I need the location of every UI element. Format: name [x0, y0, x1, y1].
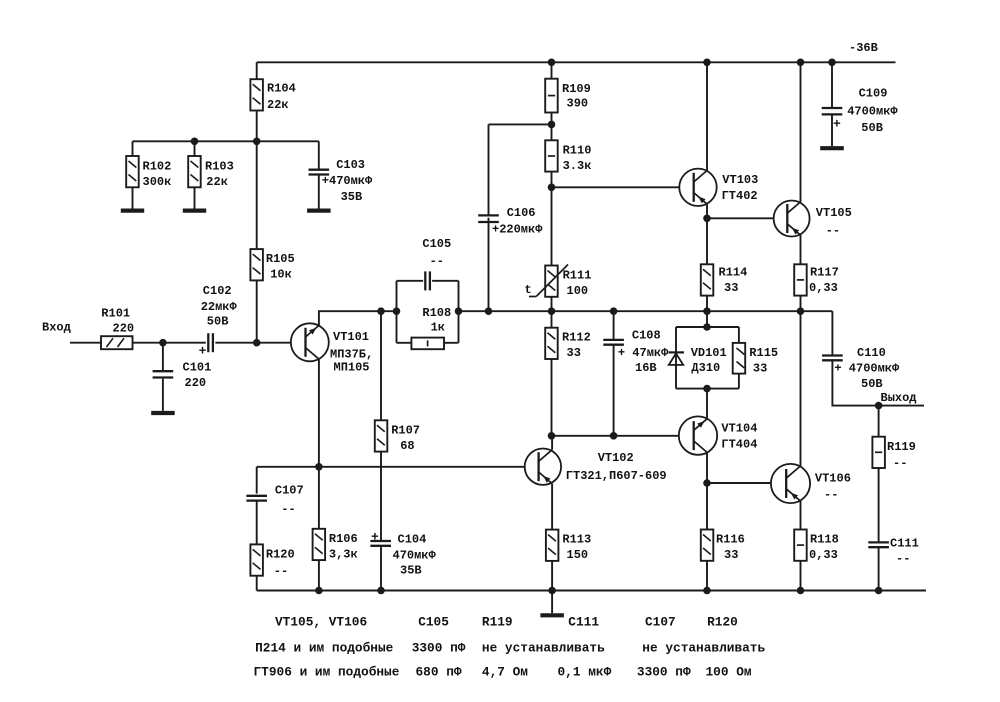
svg-text:R107: R107 [391, 424, 420, 438]
svg-text:22к: 22к [267, 98, 289, 112]
svg-text:Выход: Выход [881, 391, 917, 405]
svg-text:Вход: Вход [42, 321, 71, 335]
svg-text:4700мкФ: 4700мкФ [847, 105, 898, 119]
svg-text:VT102: VT102 [598, 451, 634, 465]
svg-text:VT103: VT103 [722, 173, 758, 187]
svg-text:300к: 300к [143, 175, 172, 189]
svg-text:C107: C107 [275, 483, 304, 497]
svg-text:3300 пФ: 3300 пФ [637, 665, 691, 680]
svg-text:R114: R114 [719, 266, 748, 280]
svg-text:не устанавливать: не устанавливать [642, 640, 765, 655]
svg-text:C109: C109 [859, 87, 888, 101]
svg-text:VT104: VT104 [721, 422, 757, 436]
svg-text:--: -- [430, 255, 444, 269]
svg-text:C110: C110 [857, 346, 886, 360]
svg-text:VT105, VT106: VT105, VT106 [275, 615, 367, 630]
svg-text:R115: R115 [749, 346, 778, 360]
svg-text:35В: 35В [400, 564, 422, 578]
svg-text:Д310: Д310 [691, 361, 720, 375]
svg-text:ГТ402: ГТ402 [722, 189, 758, 203]
svg-text:--: -- [824, 488, 838, 502]
svg-text:VD101: VD101 [691, 346, 727, 360]
svg-text:C111: C111 [890, 537, 919, 551]
svg-text:R110: R110 [563, 144, 592, 158]
svg-text:МП105: МП105 [334, 361, 370, 375]
svg-text:C111: C111 [568, 615, 599, 630]
svg-text:16В: 16В [635, 361, 657, 375]
svg-text:C104: C104 [398, 533, 427, 547]
svg-text:R113: R113 [562, 533, 591, 547]
svg-text:C101: C101 [183, 360, 212, 374]
svg-text:C102: C102 [203, 284, 232, 298]
svg-text:+ 47мкФ: + 47мкФ [618, 346, 669, 360]
svg-text:VT106: VT106 [815, 472, 851, 486]
svg-text:C106: C106 [507, 206, 536, 220]
svg-text:10к: 10к [270, 268, 292, 282]
svg-text:R103: R103 [205, 160, 234, 174]
svg-text:R120: R120 [266, 548, 295, 562]
svg-text:R104: R104 [267, 82, 296, 96]
svg-text:t: t [525, 283, 532, 297]
svg-text:C105: C105 [418, 615, 449, 630]
svg-text:ГТ321,П607-609: ГТ321,П607-609 [566, 469, 667, 483]
svg-text:R112: R112 [562, 331, 591, 345]
svg-text:--: -- [896, 552, 910, 566]
svg-text:50В: 50В [861, 377, 883, 391]
svg-text:4,7 Ом: 4,7 Ом [482, 665, 528, 680]
svg-text:П214 и им подобные: П214 и им подобные [255, 640, 394, 655]
svg-text:50В: 50В [207, 314, 229, 328]
svg-text:220: 220 [185, 376, 207, 390]
svg-text:33: 33 [753, 361, 767, 375]
svg-text:3300 пФ: 3300 пФ [412, 640, 466, 655]
svg-text:220: 220 [113, 322, 135, 336]
svg-text:100 Ом: 100 Ом [706, 665, 752, 680]
svg-text:390: 390 [567, 96, 589, 110]
svg-text:R111: R111 [563, 269, 592, 283]
svg-text:R108: R108 [422, 306, 451, 320]
svg-text:+: + [833, 117, 841, 132]
svg-text:VT101: VT101 [333, 330, 369, 344]
svg-text:R116: R116 [716, 533, 745, 547]
svg-text:68: 68 [400, 439, 414, 453]
svg-text:R118: R118 [810, 533, 839, 547]
svg-text:150: 150 [567, 548, 589, 562]
svg-text:+ 4700мкФ: + 4700мкФ [834, 361, 900, 375]
svg-text:МП37Б,: МП37Б, [330, 347, 373, 361]
svg-text:+: + [199, 344, 207, 359]
svg-text:C105: C105 [422, 237, 451, 251]
svg-text:R109: R109 [562, 82, 591, 96]
svg-text:R119: R119 [482, 615, 513, 630]
svg-text:--: -- [274, 564, 288, 578]
svg-text:3,3к: 3,3к [329, 548, 358, 562]
svg-text:680 пФ: 680 пФ [416, 665, 462, 680]
svg-text:35В: 35В [341, 190, 363, 204]
svg-text:+470мкФ: +470мкФ [322, 174, 373, 188]
svg-text:--: -- [826, 224, 840, 238]
svg-text:R117: R117 [810, 266, 839, 280]
svg-text:1к: 1к [431, 321, 445, 335]
svg-text:33: 33 [567, 346, 581, 360]
svg-text:R101: R101 [101, 307, 130, 321]
svg-text:--: -- [893, 456, 907, 470]
svg-text:50В: 50В [861, 121, 883, 135]
svg-text:не устанавливать: не устанавливать [482, 640, 605, 655]
svg-text:33: 33 [724, 548, 738, 562]
svg-text:3.3к: 3.3к [563, 159, 592, 173]
svg-text:22к: 22к [206, 175, 228, 189]
svg-text:C108: C108 [632, 329, 661, 343]
svg-text:ГТ404: ГТ404 [721, 438, 757, 452]
svg-text:VT105: VT105 [816, 206, 852, 220]
svg-text:R120: R120 [707, 615, 738, 630]
svg-text:R119: R119 [887, 440, 916, 454]
svg-text:R102: R102 [143, 160, 172, 174]
svg-text:0,1 мкФ: 0,1 мкФ [558, 665, 612, 680]
svg-text:100: 100 [567, 284, 589, 298]
svg-text:+220мкФ: +220мкФ [492, 222, 543, 236]
svg-text:R105: R105 [266, 252, 295, 266]
svg-text:470мкФ: 470мкФ [393, 549, 437, 563]
svg-text:C103: C103 [336, 158, 365, 172]
svg-text:--: -- [281, 503, 295, 517]
svg-text:0,33: 0,33 [809, 548, 838, 562]
svg-text:-36В: -36В [849, 41, 878, 55]
svg-text:R106: R106 [329, 532, 358, 546]
svg-text:+: + [371, 529, 379, 544]
svg-text:33: 33 [724, 281, 738, 295]
svg-text:0,33: 0,33 [809, 281, 838, 295]
svg-text:ГТ906 и им подобные: ГТ906 и им подобные [254, 665, 400, 680]
svg-text:22мкФ: 22мкФ [201, 300, 238, 314]
svg-text:C107: C107 [645, 615, 676, 630]
